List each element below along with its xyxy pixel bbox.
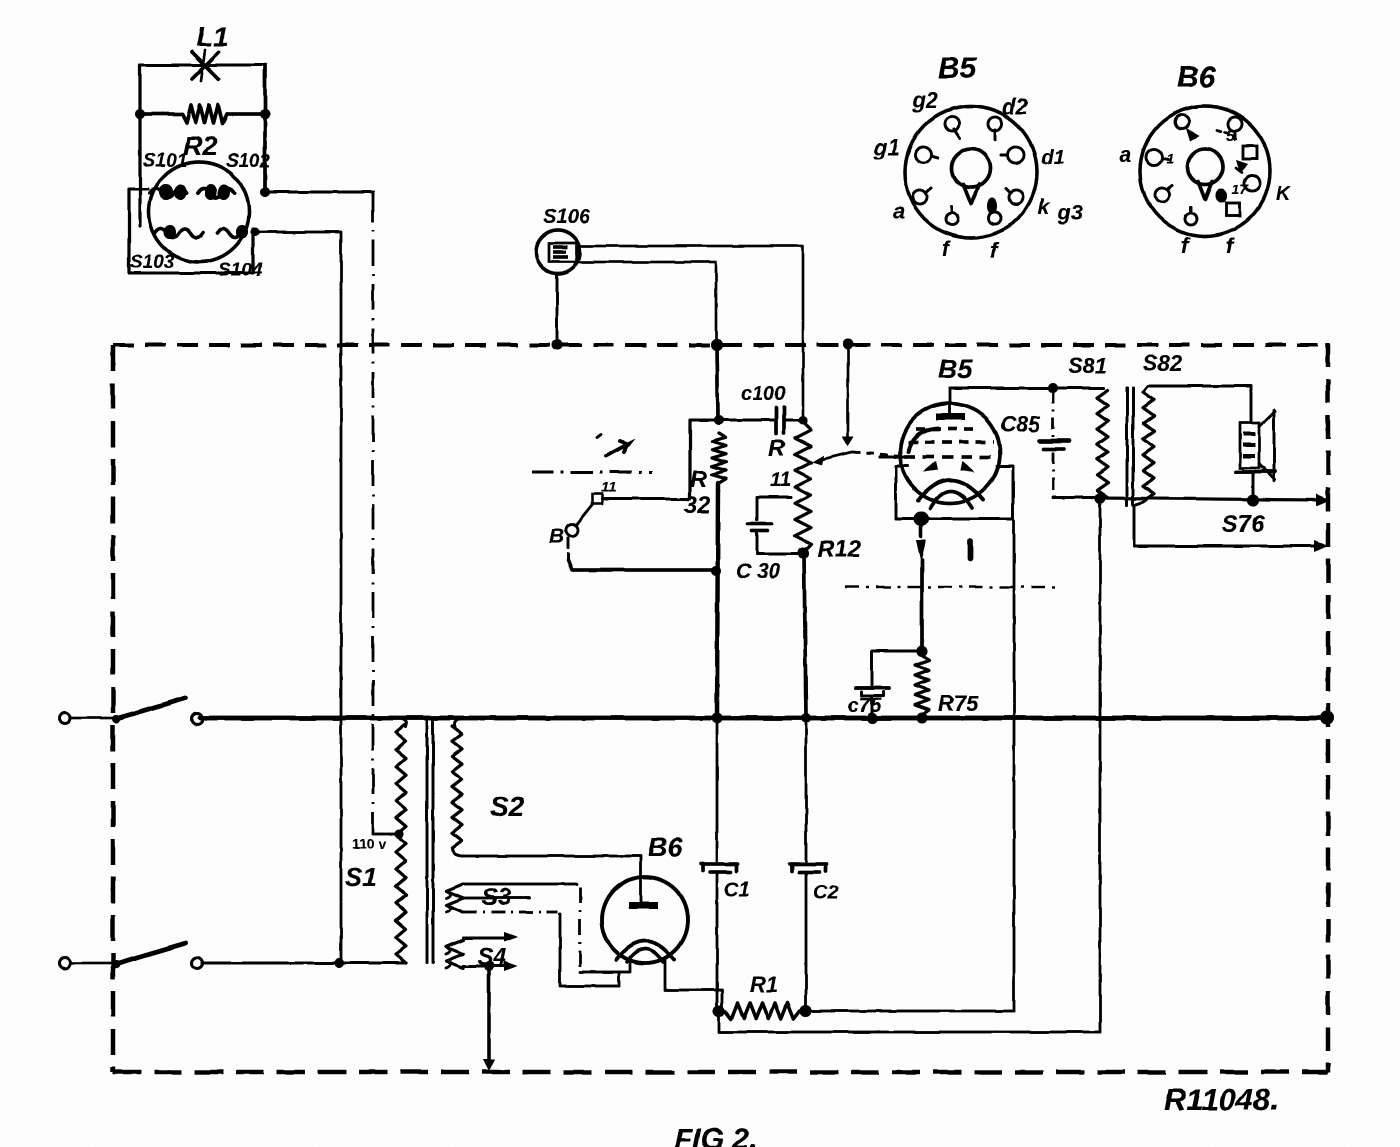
junction bus R12-C2 node <box>801 713 811 723</box>
mains switch contact lower <box>192 958 203 969</box>
svg-text:g1: g1 <box>873 135 900 160</box>
wire S106 upper lead to R11 top <box>579 246 803 418</box>
junction S81 bottom node <box>1095 493 1106 504</box>
tube B5 grid lead exiting left <box>880 455 906 458</box>
wire S81 bottom to right border <box>1100 494 1330 506</box>
tube B6 cathode arc inner <box>627 949 663 962</box>
wire lower switch to transformer <box>202 961 406 964</box>
resistor R32 <box>712 433 726 483</box>
shield dash-dot line <box>845 586 1058 588</box>
wire border node down to C100 node <box>717 345 718 419</box>
switch blade to terminal B <box>577 504 593 524</box>
tube B6 envelope <box>602 877 688 963</box>
svg-text:d2: d2 <box>1002 94 1028 119</box>
wire S104 down to mains wire <box>255 232 341 963</box>
tube B6 cathode arc outer <box>616 941 674 960</box>
svg-text:R11048.: R11048. <box>1164 1082 1279 1117</box>
chassis dashed border (bottom) <box>113 1070 1328 1074</box>
box around B5 cathode <box>896 466 913 519</box>
chassis dashed border (right) <box>1326 343 1330 1072</box>
resistor R32 label <box>684 466 711 519</box>
transformer S81 primary coil <box>1097 390 1108 498</box>
wire terminal B down to R32 line <box>568 538 721 576</box>
svg-text:B6: B6 <box>1177 61 1216 94</box>
svg-text:d1: d1 <box>1041 147 1064 169</box>
box around barretter <box>129 189 253 273</box>
potentiometer R11 (with R12 section) <box>795 422 811 552</box>
wire R32 bottom to bus <box>717 483 718 718</box>
junction S102 node <box>260 187 270 197</box>
base B5 pin labels <box>873 88 1083 263</box>
wire HT loop below R1 <box>719 1011 1100 1032</box>
loudspeaker S76 <box>1236 410 1275 497</box>
wire to C75 <box>872 651 922 686</box>
wire contact 11 to R11 node <box>602 420 717 499</box>
svg-text:B6: B6 <box>648 832 683 862</box>
winding S103-S104 (bottom row inside circle) <box>155 225 248 239</box>
wire S82 bottom to right border <box>1134 502 1328 552</box>
grid dash-dot wire to tube <box>852 452 902 456</box>
wire R12 node down to C2 <box>804 553 806 718</box>
junction cathode-R75 node <box>917 646 928 657</box>
svg-text:c100: c100 <box>741 383 786 405</box>
wire S106 to chassis <box>556 274 559 344</box>
winding S3 <box>446 884 463 912</box>
valve base diagram B5 <box>905 106 1037 238</box>
pilot lamp S106 <box>536 230 580 274</box>
tap select wire (dash-dot down to 110V tap) <box>372 196 375 834</box>
wire S81-bottom node down to HT loop <box>1099 498 1102 1032</box>
junction C100 left node <box>714 415 724 425</box>
svg-text:S101: S101 <box>143 151 187 172</box>
wire S3 bottom lead to B6 filament <box>463 898 619 986</box>
tube B6 anode <box>629 902 658 909</box>
mains switch contact upper <box>192 714 203 725</box>
chassis dashed border (top) <box>113 343 1328 347</box>
svg-text:R75: R75 <box>938 691 979 716</box>
wire R1 right to B5 cathode line <box>806 521 1014 1011</box>
tube B5 anode <box>936 388 965 420</box>
svg-text:S81: S81 <box>1068 353 1107 378</box>
junction B5 cathode node <box>914 512 929 527</box>
svg-text:S2: S2 <box>490 791 525 822</box>
svg-text:k: k <box>1038 196 1051 219</box>
mains terminal upper <box>60 713 71 724</box>
capacitor C1 <box>701 864 738 1008</box>
capacitor C85 <box>1040 391 1098 497</box>
svg-text:C1: C1 <box>724 879 750 901</box>
transformer S1 primary coil <box>396 718 407 963</box>
svg-text:11: 11 <box>770 469 791 491</box>
resistor R75 <box>915 655 929 715</box>
main chassis bus wire <box>200 716 1327 721</box>
wire bus down to C1 <box>716 718 719 861</box>
svg-text:S103: S103 <box>130 252 175 273</box>
svg-text:S104: S104 <box>218 260 263 281</box>
wire B5 cathode down (with arrow) <box>916 527 926 651</box>
svg-text:L1: L1 <box>196 21 229 52</box>
mains switch blade upper <box>112 698 186 723</box>
wire 110V tap <box>373 830 404 839</box>
svg-text:a: a <box>1120 144 1132 167</box>
terminal B <box>549 524 578 548</box>
capacitor C100 <box>719 407 803 433</box>
R11 wiper arrow <box>812 452 852 465</box>
junction bus right border node <box>1320 711 1334 725</box>
junction S106 chassis node <box>552 340 563 351</box>
svg-text:B5: B5 <box>938 52 978 85</box>
junction R1 right node <box>800 1005 812 1017</box>
svg-text:R2: R2 <box>183 131 218 161</box>
svg-text:C85: C85 <box>1000 412 1041 437</box>
wire S106 lower lead to R32 top <box>578 262 716 344</box>
svg-text:11: 11 <box>601 479 617 496</box>
transformer S82 secondary coil <box>1143 392 1154 502</box>
svg-text:110 v: 110 v <box>352 836 386 852</box>
resistor R2 <box>135 105 270 123</box>
svg-text:R: R <box>690 466 708 493</box>
switch contact 11 <box>592 479 617 504</box>
wire terminal to switch lower <box>71 962 115 965</box>
svg-text:g3: g3 <box>1057 202 1083 225</box>
svg-text:S82: S82 <box>1143 351 1183 376</box>
wire right side of L1 loop <box>263 65 267 192</box>
wire B5 anode to S81 <box>950 383 1104 393</box>
junction node on chassis border <box>711 339 723 351</box>
svg-text:B5: B5 <box>938 354 973 384</box>
chassis dashed border (left) <box>111 345 115 1072</box>
tube B5 screen grid g2 (dashes) <box>916 427 978 430</box>
svg-text:S102: S102 <box>226 151 271 172</box>
R11 label <box>768 435 791 491</box>
svg-text:FIG 2.: FIG 2. <box>674 1123 757 1147</box>
power switch lever (on R11) <box>597 434 636 456</box>
svg-text:32: 32 <box>684 492 711 519</box>
winding S4 <box>446 940 463 968</box>
tube B5 control grid g1 (dashes) <box>904 455 992 459</box>
switch linkage dash-dot line <box>532 471 652 474</box>
junction S104 node <box>251 228 260 237</box>
junction R1 left node <box>713 1005 725 1017</box>
wire B6 filament right lead to R1 node <box>665 958 722 1008</box>
svg-text:c75: c75 <box>848 695 882 717</box>
tube B5 cathode arc outer <box>918 480 983 500</box>
wire S2 bottom to B6 anode <box>464 856 641 902</box>
wire S102 to tap line <box>265 192 373 196</box>
wire S82 top to speaker <box>1143 386 1251 423</box>
transformer core S1 <box>426 720 429 962</box>
capacitor C2 <box>790 864 827 1008</box>
base B6 pin labels <box>1120 128 1292 258</box>
junction C75 bus node <box>867 713 878 724</box>
resistor R1 <box>725 1003 800 1019</box>
svg-text:S1: S1 <box>345 862 377 892</box>
tube B5 cathode arc inner <box>930 491 972 508</box>
tube B5 beam plate left <box>908 428 938 452</box>
junction bus C1 node <box>712 713 723 724</box>
mains terminal lower <box>60 958 71 969</box>
capacitor C75 <box>856 688 889 718</box>
svg-text:g2: g2 <box>911 88 938 113</box>
grid dash-dot lead from chassis <box>842 339 854 447</box>
wire left side of L1 loop <box>138 65 141 226</box>
svg-text:R1: R1 <box>750 972 778 997</box>
junction speaker bottom node <box>1247 494 1259 506</box>
svg-text:R12: R12 <box>817 536 862 563</box>
capacitor C30 <box>757 497 791 520</box>
wire S4 to bottom border <box>483 966 495 1071</box>
winding S4 leads with arrows <box>463 932 518 971</box>
tube B5 cathode arrows <box>923 461 938 472</box>
tube B5 screen grid g3 (dashes) <box>908 440 994 443</box>
filament stub mark <box>967 541 973 558</box>
barretter unit circle S101-S104 <box>149 162 249 262</box>
valve base diagram B6 <box>1140 106 1270 236</box>
svg-text:C 30: C 30 <box>736 560 781 583</box>
svg-text:B: B <box>549 525 564 548</box>
wire S3 top lead to B6 filament <box>463 884 630 972</box>
lamp L1 (crossed-wire symbol) <box>140 50 265 81</box>
svg-text:S106: S106 <box>543 206 591 228</box>
svg-text:1: 1 <box>1166 150 1174 166</box>
svg-text:5: 5 <box>1226 128 1236 145</box>
svg-text:R: R <box>768 435 786 462</box>
tube B5 envelope <box>900 403 1000 503</box>
svg-text:a: a <box>893 200 905 223</box>
junction R11 top node <box>799 416 808 425</box>
svg-text:S76: S76 <box>1222 511 1265 538</box>
junction S104 wire to bottom mains wire <box>334 958 344 968</box>
junction R12 node <box>798 548 809 559</box>
svg-text:C2: C2 <box>813 882 839 904</box>
wire terminal to switch <box>71 717 115 720</box>
junction R75 bus node <box>917 713 928 724</box>
svg-text:17: 17 <box>1232 181 1249 197</box>
transformer S2 secondary coil <box>452 718 466 856</box>
mains switch blade lower <box>112 943 186 968</box>
winding S101-S102 (top row inside circle) <box>150 184 234 200</box>
svg-text:K: K <box>1276 183 1292 205</box>
wire R12 down to C2 <box>805 718 808 861</box>
transformer core <box>1126 388 1129 505</box>
